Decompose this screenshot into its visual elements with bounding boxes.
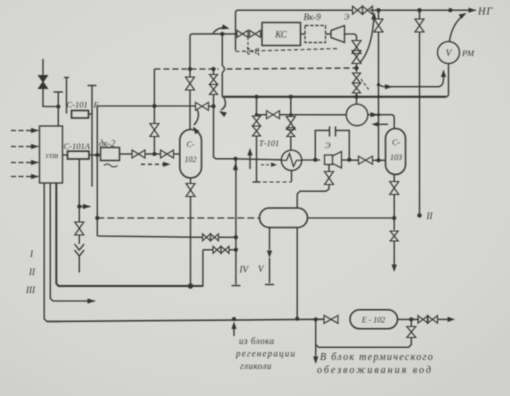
wire bowtie header y=106 from riser x97 (97, 105, 196, 107)
wire T-101 top riser to shell (290, 137, 292, 151)
label E (ejector) (325, 140, 331, 150)
label to thermal unit line1 (320, 352, 434, 363)
svg-text:Вк-9: Вк-9 (304, 12, 322, 22)
svg-text:В блок термического: В блок термического (320, 352, 434, 363)
node junction B on riser IV (234, 248, 238, 252)
flow arrow product out (438, 317, 456, 322)
wire dk-2 outlet (120, 153, 133, 155)
valve V20b (pot riser lower) (253, 126, 261, 136)
svg-text:КС: КС (274, 30, 288, 40)
node junction y106 riser x213 (211, 104, 215, 108)
node riser x378 / long header (377, 95, 380, 98)
node main line / riser IV junction (233, 157, 237, 161)
svg-text:С-101: С-101 (67, 100, 88, 110)
label C-102 line1 (187, 140, 195, 149)
valve V21 (T-101 top riser) (286, 117, 295, 137)
svg-text:регенерации: регенерации (235, 349, 296, 359)
label E-102 (361, 316, 386, 325)
label dk-2 (99, 139, 116, 149)
svg-text:НГ: НГ (477, 7, 493, 18)
wire drain to thermal branch (316, 338, 412, 348)
flow arrow blowdown down (392, 241, 397, 272)
wire E-102 outlet (398, 318, 420, 320)
check valve (chevrons) on drain (75, 244, 85, 273)
label C-101A (64, 141, 91, 151)
node junction at UPV top riser (56, 104, 60, 108)
wire ejector drain to drum top (297, 185, 329, 209)
wire meter bottom to long header (446, 64, 449, 97)
valve V10 (KS inlet 1) (237, 30, 248, 37)
wire dashed bypass header y=52 (236, 49, 340, 52)
valve V16 (dashed bypass) (248, 48, 259, 55)
svg-text:из блока: из блока (239, 336, 275, 346)
unit Vk-9 dashed box (305, 26, 326, 43)
svg-text:гликоли: гликоли (240, 361, 272, 371)
exchanger T-101 (circle with zigzag) (281, 150, 301, 170)
svg-text:С-101А: С-101А (64, 141, 91, 151)
instrument V flow meter circle (438, 42, 460, 64)
label C-103 line2 (390, 153, 402, 162)
valve V1 (gate, vertical line top-left) (39, 76, 48, 89)
wire riser x154 below valve (153, 137, 155, 155)
valve V18 (riser x378) (374, 10, 383, 32)
drum D-1 (horizontal capsule) (260, 208, 308, 228)
valve V12 (horn outlet upper) (352, 41, 361, 54)
node riser x378 / blower discharge (377, 113, 380, 116)
unit UPV block (rectangle) (40, 126, 63, 183)
node pot riser / suction junction (255, 113, 258, 116)
valve V14 (blower riser) (353, 73, 361, 83)
valve V4 (C-101A drain) (75, 222, 84, 235)
wire KS outer loop (top recycle) (236, 10, 353, 50)
wire valve pair A to riser IV (219, 236, 236, 238)
flow arrow glycol return up (231, 322, 236, 337)
wire C-102 bottom outlet (190, 178, 192, 184)
wire C-103 bottoms to drum header (393, 195, 395, 231)
valve V8a (riser x213 upper) (210, 75, 218, 85)
unit dk-2 box (101, 148, 120, 161)
node junction header y106 / riser x154 (152, 104, 156, 108)
node main line / E-box left leg (313, 158, 317, 162)
wire long header y=97 (recycle) (222, 96, 446, 98)
node blower riser / long header (354, 95, 358, 99)
label II (roman) (28, 267, 36, 277)
wire line from riser to KS inlet (193, 33, 235, 35)
node C-102 bottoms / header III junction (188, 283, 193, 288)
unit ejector horn (trapezoid) (331, 26, 345, 43)
flow curve from meter to NG line (450, 13, 467, 41)
svg-text:С-: С- (187, 140, 195, 149)
flow arrow dashed under C-102 inlet (141, 162, 171, 167)
drum E-102 (horizontal capsule) (350, 310, 398, 329)
wire riser x419 down to end II (419, 32, 421, 215)
wire drum header right segment (307, 217, 394, 219)
svg-text:УПВ: УПВ (45, 153, 58, 160)
flow arrow curved on KS inlet line (213, 24, 230, 33)
wire NG line to arrow (370, 9, 466, 11)
valve V17 (NG line gate) (353, 6, 373, 14)
flow arrow up on riser IV stub (233, 163, 238, 172)
wire drum bottom outlet to bottom header (296, 228, 298, 319)
wire riser x222 from KS inlet with jog (222, 34, 224, 97)
wire Vk-9 to ejector horn (326, 33, 332, 35)
flow arrow curved into C-102 top (193, 109, 199, 134)
wire from V1 down and right to UPV top (43, 89, 58, 107)
wire riser x213 from header (213, 69, 215, 74)
valve V22 (ejector outlet) (359, 156, 373, 164)
node header / glycol return (232, 317, 236, 321)
label PM (461, 48, 475, 58)
label IV (roman) (239, 265, 250, 275)
svg-text:С-: С- (392, 138, 400, 147)
wire dashed bypass drop from KS valves (247, 37, 249, 50)
drum C-101B (small horizontal vessel) (72, 111, 89, 119)
valve V6 (riser x154) (150, 124, 159, 137)
valve V28 (outlet pair) (418, 316, 438, 324)
label E-horn (344, 13, 350, 22)
node main line / E-box right leg (347, 158, 351, 162)
node drain junction with stub arrow (77, 204, 90, 209)
node suction / T101 riser crossing (289, 113, 292, 116)
valve V24 (blower suction) (267, 111, 280, 119)
flow arrow up crossing main line at x250 (247, 148, 252, 169)
wire riser right of C-101B with tee cap (88, 86, 97, 187)
svg-text:II: II (28, 267, 36, 277)
wire C-102 bottoms to header III (190, 197, 192, 287)
wire line II from UPV with arrow (50, 183, 95, 304)
wire ejector to outlet valve (342, 159, 359, 161)
label UPV (45, 153, 58, 160)
wire corner riser x203 down to header III (191, 250, 203, 286)
valve V11 (KS inlet 2) (250, 30, 261, 37)
wire header III continues to corner riser (191, 285, 203, 287)
wire line III from UPV to header III (56, 183, 190, 286)
wire riser x213 to corner and main line (214, 95, 236, 159)
column C-102 (vertical capsule vessel) (180, 130, 202, 179)
wire riser x378 down (378, 32, 380, 161)
label from glycol regeneration line2 (235, 349, 296, 359)
wire dashed suction header y=69 (154, 68, 356, 69)
node header / thermal branch (314, 317, 318, 321)
label II (right) (426, 211, 434, 221)
flow arrow return under discharge (372, 122, 389, 127)
flow arrow inlet 1 to UPV (11, 128, 39, 133)
flow arrow curved at riser x222 bottom (219, 98, 227, 117)
label to thermal unit line2 (317, 365, 433, 376)
wire KS to Vk-9 (301, 33, 306, 35)
node junction A on riser IV (234, 235, 238, 239)
wire T-101 bottom to dashed pot (291, 171, 293, 182)
svg-text:103: 103 (390, 153, 402, 162)
wire blower suction from pot riser (257, 114, 267, 116)
wire riser x190 below valve to C-102 (189, 90, 191, 130)
wire feed line top-left vertical (42, 59, 44, 75)
node drum outlet / bottom header (295, 317, 299, 321)
label C-102 line2 (185, 155, 197, 164)
wire valve V3 to C-102 (174, 153, 180, 155)
wire C-101B outlet to right riser (89, 113, 93, 115)
label from glycol regeneration line3 (240, 361, 272, 371)
flow arrow inlet 3 to UPV (11, 160, 39, 165)
label III (roman) (25, 285, 36, 295)
wire pot riser x256 from header (256, 97, 258, 115)
wire valve V5 to riser x213 (208, 105, 214, 107)
svg-text:II: II (426, 211, 434, 221)
drum C-101A (small horizontal vessel) (68, 151, 90, 159)
label NG (477, 7, 493, 18)
valve V7 (riser x190) (186, 77, 195, 90)
node E-102 outlet junction (409, 317, 413, 321)
wire C-101A outlet to dk-2 (89, 154, 101, 156)
wire C-101B left riser (64, 78, 69, 114)
wire riser IV lower segment with tee end (232, 159, 241, 286)
wire ejector drain down (328, 165, 330, 173)
wire horn outlet to suction header node (356, 64, 358, 73)
wire C-101A drain riser (78, 159, 80, 222)
valve V8b (riser x213 lower) (210, 85, 218, 95)
wire T-101 top riser from header (290, 97, 292, 117)
wire dashed pot bottom (257, 181, 292, 183)
valve V25 (C-103 bottoms) (390, 182, 399, 195)
node NG / riser x378 (376, 8, 380, 12)
valve V26 (blowdown) (390, 231, 398, 241)
wire main line riser-to-T101 (235, 159, 281, 160)
wire dashed header y=236 to valve pair A (97, 236, 202, 237)
node NG / V-meter riser (448, 8, 452, 12)
node junction inlet line / drain riser (152, 152, 156, 156)
valve V2 (C-102 inlet first) (132, 150, 145, 158)
svg-text:Э: Э (325, 140, 331, 150)
wire between inlet valves (145, 153, 160, 155)
node dashed header / riser x190 (188, 67, 192, 71)
valve V27 (E-102 inlet) (324, 315, 338, 323)
wire horn outlet corner down (345, 34, 357, 41)
wire bypass to V-meter bottom (379, 70, 447, 90)
flow arrow inlet 2 to UPV (11, 144, 39, 149)
valve V20a (pot riser upper) (253, 116, 261, 126)
wire bottom header y=319 (47, 319, 324, 321)
node header / T-101 pot riser (254, 95, 258, 99)
blower circle (346, 104, 368, 126)
valve V23 (ejector drain) (325, 172, 334, 185)
node suction header end (354, 66, 358, 70)
valve V5 (C-102 overhead gate) (196, 102, 209, 110)
wire KS inlet valves segment (234, 33, 237, 35)
valve V15 (blower riser 2) (353, 83, 361, 93)
orifice symbol under dk-2 (104, 164, 118, 167)
ejector symbol (box and cones) (325, 152, 342, 169)
label T-101 (259, 138, 279, 148)
node NG / riser x419 (417, 8, 421, 12)
wire blower discharge to C-103 top (368, 112, 394, 129)
wire UPV top nozzle riser with tee cap (54, 92, 64, 126)
node riser x378 / bypass corner (377, 83, 380, 86)
node C-103 bottoms / drum header (392, 216, 396, 220)
wire suction valve to blower (280, 114, 347, 116)
node junction C-101A outlet / riser x97 (95, 153, 99, 157)
valve V19 (riser x419) (415, 10, 424, 32)
wire line I from UPV to bottom header (44, 183, 60, 322)
wire dashed header to drum (y=218) (97, 217, 259, 219)
label V (roman) (258, 264, 265, 274)
valve V3 (C-102 inlet second) (161, 150, 174, 158)
node riser x378 / C-103 inlet (376, 158, 380, 162)
label I (roman) (29, 249, 34, 259)
unit E-box loop with break symbol (315, 127, 349, 160)
wire ejector outlet valve to C-103 (373, 159, 387, 161)
node header / T-101 top riser (289, 95, 293, 99)
valve V13 (horn outlet lower) (352, 51, 361, 64)
wire E-102 drain (410, 319, 412, 326)
svg-text:Е - 102: Е - 102 (361, 316, 386, 325)
node junction x222 on KS inlet (220, 32, 224, 36)
svg-text:IV: IV (239, 265, 250, 275)
wire thermal branch down with arrow (313, 319, 318, 364)
svg-text:обезвоживания вод: обезвоживания вод (317, 365, 433, 376)
wire drain between valve and check (78, 235, 80, 244)
wire header y=250 from corner riser (203, 249, 214, 251)
valve V9 (C-102 bottoms) (186, 184, 195, 197)
node riser x97 / drum header (95, 216, 99, 220)
label from glycol regeneration line1 (239, 336, 275, 346)
wire riser x190 from KS corner to C-102 top (190, 34, 193, 77)
valve V29 (E-102 drain) (407, 327, 416, 338)
svg-text:РМ: РМ (461, 48, 475, 58)
unit KS box (262, 23, 301, 46)
wire valves to KS box (261, 33, 263, 35)
label V inside meter (446, 48, 453, 58)
valve pair B (double gate on header y250) (213, 246, 229, 253)
wire UPV outlet to C-101A (63, 154, 68, 156)
wire C-103 bottoms (393, 175, 395, 182)
svg-text:102: 102 (185, 155, 197, 164)
flow arrow dashed into T-101 (261, 163, 277, 167)
label C-101B (67, 100, 99, 110)
flow arrow inlet 4 to UPV (11, 174, 39, 179)
node dashed header / riser x213 (211, 67, 215, 71)
wire main line T101 to ejector (302, 159, 320, 161)
label Vk-9 (304, 12, 322, 22)
wire blower riser to circle (356, 93, 358, 104)
flow curve from header up to NG line (361, 12, 377, 62)
wire riser x97 from bowtie header down (96, 106, 98, 236)
valve pair A (double gate on header y237) (203, 234, 219, 241)
wire riser x154 dashed-header to inlet (153, 69, 155, 124)
column C-103 (vertical capsule vessel) (386, 129, 406, 175)
svg-text:Т-101: Т-101 (259, 138, 279, 148)
label KS (274, 30, 288, 40)
node end of line II (417, 213, 421, 217)
wire pot riser to dashed pot (253, 136, 261, 182)
svg-text:III: III (25, 285, 36, 295)
wire valve pair B to riser IV (229, 249, 236, 251)
label C-103 line1 (392, 138, 400, 147)
svg-text:Э: Э (344, 13, 350, 22)
wire drum V-outlet with arrow (265, 228, 274, 285)
instrument dashed tie at blower valve (361, 79, 369, 90)
flow arrow NG outlet (466, 8, 476, 13)
